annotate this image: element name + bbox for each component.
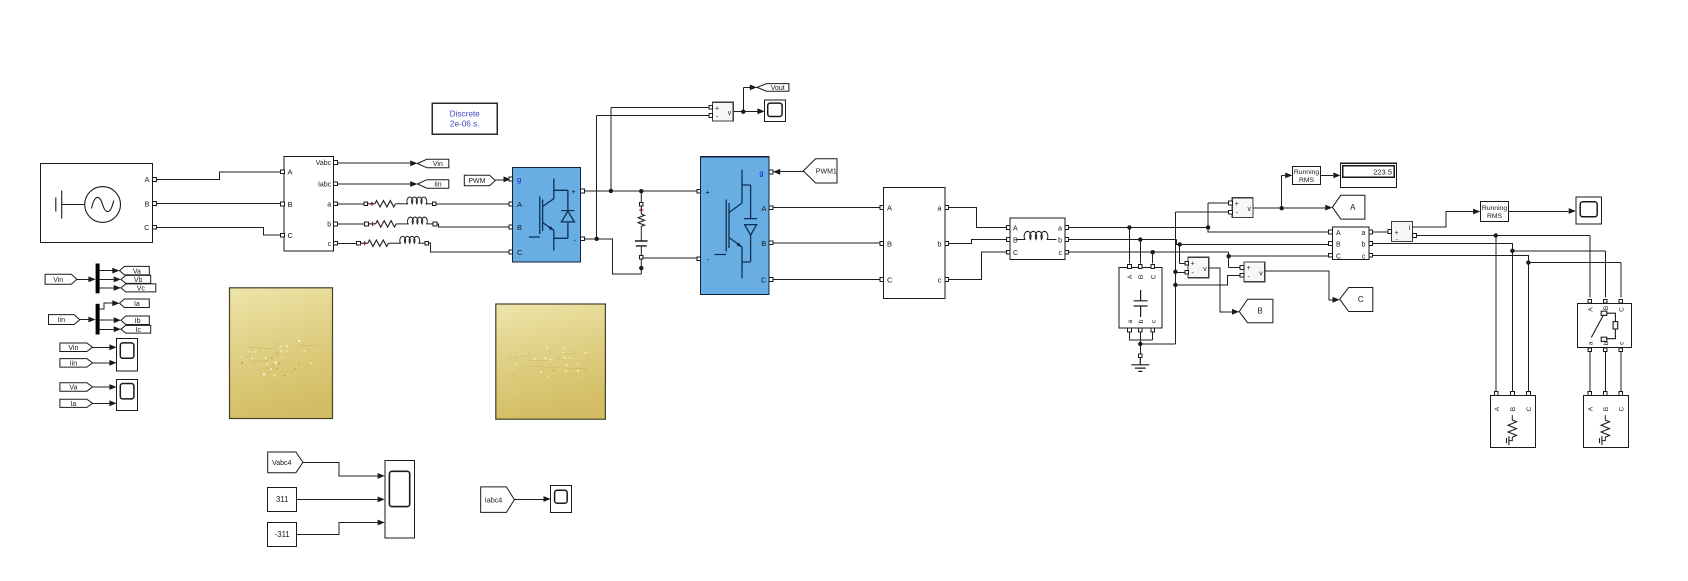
wire demux to Ic (100, 329, 114, 331)
masked subsystem yellow block 1 (230, 288, 333, 419)
svg-text:B: B (761, 239, 766, 248)
wire demux to Vb (100, 278, 114, 280)
svg-text:A: A (1336, 230, 1341, 237)
svg-text:B: B (1013, 238, 1018, 245)
junction snubber bottom (639, 266, 643, 270)
svg-text:b: b (327, 222, 331, 229)
wire phase a bus (1069, 227, 1329, 232)
svg-text:c: c (938, 276, 942, 285)
svg-text:311: 311 (276, 495, 288, 504)
load 1 port C (1527, 392, 1531, 396)
three-phase V-I measurement block 1 (284, 157, 334, 252)
rectifier port - (581, 237, 585, 241)
svg-text:b: b (937, 240, 941, 249)
inductor port a (1065, 226, 1069, 230)
inverter port g (769, 170, 773, 174)
wire current i output to Running RMS 2 (1413, 212, 1473, 227)
svg-text:C: C (761, 276, 767, 285)
wire RL b to rectifier B (437, 224, 509, 227)
voltage measurement Vb (1188, 257, 1209, 277)
wire V1 minus to neutral (1175, 271, 1184, 273)
junction phase c to voltage measurement C (1227, 254, 1231, 258)
load 2 port C (1619, 392, 1623, 396)
breaker port b (1603, 348, 1607, 352)
constant 311 (268, 488, 297, 512)
wire Iin to demux 2 (80, 319, 89, 321)
goto tag Vb (121, 275, 151, 283)
rectifier port g (509, 177, 513, 181)
junction Va output (1280, 206, 1284, 210)
junction neutral V1 (1173, 270, 1177, 274)
wire phase c drop to capacitor bank (1152, 252, 1154, 263)
transformer port c (945, 278, 949, 282)
svg-text:223.5: 223.5 (1373, 168, 1392, 177)
breaker port C (1619, 299, 1623, 303)
svg-text:a: a (1058, 225, 1062, 232)
transformer port a (945, 206, 949, 210)
svg-text:v: v (1203, 266, 1207, 273)
wire VI1 c to RL branch c (338, 242, 357, 244)
wire V2 minus to neutral (1175, 275, 1239, 285)
wire phase c to breaker and load (1373, 255, 1621, 297)
Running RMS block 1 (1292, 167, 1320, 185)
VI2 port a (1369, 230, 1373, 234)
svg-text:B: B (1138, 275, 1145, 279)
wire Running RMS 1 to display (1321, 174, 1334, 176)
VI1 port C (281, 233, 285, 237)
goto tag C (1340, 288, 1373, 312)
svg-text:Ic: Ic (135, 327, 141, 334)
from tag Vabc4 (268, 452, 303, 473)
svg-text:+: + (715, 105, 719, 112)
junction phase c load 1 (1526, 260, 1530, 264)
svg-text:B: B (288, 200, 293, 209)
inverter port C (769, 278, 773, 282)
wire source B to measurement B (157, 203, 281, 205)
VI1 port Vabc (334, 161, 338, 165)
Vc port - (1240, 273, 1244, 277)
svg-text:-311: -311 (275, 530, 290, 539)
inductor port c (1065, 250, 1069, 254)
wire VI1 a to RL branch a (338, 203, 364, 205)
source port C (153, 225, 157, 229)
VI1 port a (334, 202, 338, 206)
inductor port b (1065, 238, 1069, 242)
svg-text:Ia: Ia (70, 401, 76, 408)
wire phase b drop to load 1 (1511, 251, 1513, 392)
svg-text:C: C (517, 248, 523, 257)
svg-text:Vin: Vin (68, 345, 78, 352)
wire snubber to inverter minus (643, 257, 696, 260)
wire phase a drop to load 1 (1495, 236, 1497, 392)
wire Vin to demux 1 (77, 278, 89, 280)
svg-text:c: c (1362, 253, 1366, 260)
svg-text:+: + (1235, 201, 1239, 208)
Vdc port - (709, 114, 713, 118)
wire inverter B to transformer B (773, 242, 880, 244)
junction neutral V2 (1173, 283, 1177, 287)
source port A (153, 178, 157, 182)
svg-text:C: C (887, 276, 893, 285)
svg-text:g: g (759, 169, 763, 178)
wire PWM to rectifier g (495, 179, 503, 181)
from tag Ia scope (60, 399, 93, 407)
wire PWM1 to inverter g (780, 171, 803, 173)
svg-text:RMS: RMS (1487, 213, 1503, 220)
VI2 port C (1329, 253, 1333, 257)
svg-text:Iabc: Iabc (318, 182, 332, 189)
wire demux to Ib (100, 319, 114, 321)
universal bridge inverter U2 (701, 157, 770, 295)
svg-text:+: + (1246, 265, 1250, 272)
wire phase c down to V2 plus (1229, 256, 1240, 267)
junction phase a load 1 (1494, 233, 1498, 237)
powergui block Discrete 2e-06 s (432, 103, 497, 134)
svg-text:Vabc4: Vabc4 (272, 460, 291, 467)
VI1 port Iabc (334, 182, 338, 186)
svg-text:B: B (1603, 306, 1610, 310)
wire DC plus up to Vdc measurement (611, 107, 709, 191)
svg-text:B: B (517, 223, 522, 232)
Vb port + (1185, 261, 1189, 265)
series RL branch phase a (364, 197, 436, 207)
current measurement port out (1413, 234, 1417, 238)
three-phase RLC load 1 (1491, 396, 1536, 448)
transformer port C (880, 278, 884, 282)
wire source A to measurement A (157, 172, 281, 180)
wire phase a drop to capacitor bank (1128, 227, 1130, 263)
current measurement port + (1388, 230, 1392, 234)
svg-text:C: C (1013, 250, 1018, 257)
svg-text:C: C (1358, 295, 1364, 304)
scope Iabc4 (551, 486, 572, 513)
svg-text:a: a (1587, 341, 1594, 345)
VI1 port b (334, 222, 338, 226)
wire Running RMS 2 to scope (1509, 211, 1569, 213)
wire Va to scope 2 (93, 386, 110, 388)
series RL branch phase b (365, 217, 437, 227)
voltage measurement Vdc (713, 102, 734, 121)
Vc port + (1240, 266, 1244, 270)
VI2 port c (1369, 253, 1373, 257)
svg-text:Discrete: Discrete (450, 110, 480, 119)
VI1 port A (281, 170, 285, 174)
svg-text:A: A (887, 204, 892, 213)
svg-text:Ib: Ib (135, 318, 141, 325)
junction phase b to capacitor bank (1138, 237, 1142, 241)
from tag Iabc4 (481, 487, 515, 513)
from tag Iin (49, 315, 80, 325)
goto tag Vc (121, 284, 156, 292)
capacitor bank port c (1151, 328, 1155, 332)
three-phase RLC load 2 (1584, 396, 1629, 448)
VI1 port B (281, 202, 285, 206)
wire demux to Va (100, 270, 113, 272)
transformer port B (880, 242, 884, 246)
scope current (1576, 197, 1602, 224)
from tag PWM1 (803, 159, 837, 183)
capacitor bank port b (1138, 328, 1142, 332)
svg-text:PWM1: PWM1 (816, 169, 837, 176)
svg-text:A: A (1587, 406, 1594, 411)
svg-text:B: B (1336, 242, 1341, 249)
svg-text:B: B (1258, 307, 1263, 316)
wire demux to Vc (100, 287, 114, 289)
voltage measurement Vc (1244, 262, 1265, 282)
wire VI1 b to RL branch b (338, 223, 365, 225)
svg-text:c: c (1059, 250, 1063, 257)
from tag Vin (45, 274, 77, 284)
wire Vb output to goto B (1209, 268, 1232, 312)
goto tag Ib (121, 316, 149, 325)
wire Va to goto A (1282, 207, 1326, 209)
svg-text:Vin: Vin (53, 277, 63, 284)
junction phase c to capacitor bank (1151, 250, 1155, 254)
goto tag Vin (417, 159, 448, 168)
wire DC minus up to Vdc measurement (597, 115, 709, 238)
svg-text:Running: Running (1482, 205, 1508, 212)
demux 2 (96, 304, 100, 335)
svg-text:-: - (1396, 236, 1398, 243)
wire phase b down to V1 plus (1180, 244, 1185, 263)
wire transformer a to inductor A (949, 207, 1006, 227)
wire phase a to breaker and load (1417, 236, 1590, 298)
svg-text:C: C (1618, 307, 1625, 312)
svg-text:Vabc: Vabc (316, 160, 332, 167)
Running RMS block 2 (1480, 202, 1508, 222)
current measurement block (1392, 221, 1413, 242)
breaker port c (1619, 348, 1623, 352)
wire Vabc to goto Vin (338, 162, 411, 164)
VI1 port c (334, 241, 338, 245)
svg-text:v: v (1259, 270, 1263, 277)
wire Iabc to goto Iin (338, 183, 411, 185)
wire phase a up to V3 plus (1208, 203, 1228, 227)
breaker port a (1588, 348, 1592, 352)
svg-text:Vc: Vc (137, 286, 146, 293)
junction DC minus (595, 237, 599, 241)
svg-text:Va: Va (133, 268, 141, 275)
inductor port C (1006, 250, 1010, 254)
inverter port - (697, 257, 701, 261)
wire neutral line (1140, 212, 1228, 344)
goto tag Ic (121, 325, 151, 333)
junction Vdc output (741, 110, 745, 114)
from tag Vin scope (60, 343, 93, 352)
scope Vdc (765, 100, 786, 122)
svg-text:C: C (1526, 406, 1533, 411)
svg-text:B: B (144, 199, 149, 208)
svg-text:Iin: Iin (58, 317, 66, 324)
wire DC plus rail (585, 190, 697, 192)
junction neutral (1138, 342, 1142, 346)
wire RL c to rectifier C (429, 243, 509, 252)
svg-text:+: + (571, 187, 576, 196)
load 2 port B (1603, 392, 1607, 396)
wire Vin to scope 1 (93, 346, 110, 348)
wire source C to measurement C (157, 227, 281, 235)
wire breaker a to load 2 (1589, 352, 1591, 392)
svg-text:RMS: RMS (1299, 177, 1315, 184)
constant -311 (268, 523, 297, 547)
three-phase capacitor bank block (1119, 267, 1162, 328)
wire capacitor bank to neutral bus (1129, 332, 1152, 354)
wire phase b drop to capacitor bank (1139, 240, 1141, 264)
wire demux to Ia (100, 303, 113, 309)
svg-text:Vb: Vb (134, 277, 143, 284)
wire DC minus rail (585, 239, 642, 274)
three-phase transformer block (884, 188, 945, 299)
source port B (153, 202, 157, 206)
svg-text:B: B (887, 240, 892, 249)
wire breaker c to load 2 (1620, 352, 1622, 392)
universal bridge rectifier U1 (513, 168, 581, 263)
transformer port b (945, 242, 949, 246)
svg-text:C: C (1150, 274, 1157, 279)
svg-text:2e-06 s.: 2e-06 s. (450, 120, 480, 129)
capacitor bank port A (1128, 265, 1132, 269)
wire -311 to scope 3 (297, 523, 378, 535)
goto tag Iin (417, 180, 448, 189)
wire Iin to scope 1 (93, 362, 110, 364)
junction phase b load 1 (1510, 249, 1514, 253)
rectifier port + (581, 189, 585, 193)
capacitor bank port B (1138, 265, 1142, 269)
svg-text:Va: Va (69, 385, 77, 392)
demux 1 (96, 264, 100, 294)
series RL branch phase c (357, 236, 429, 246)
inverter port + (697, 189, 701, 193)
goto tag Va (120, 266, 150, 275)
wire transformer b to inductor B (949, 240, 1006, 244)
wire breaker b to load 2 (1604, 352, 1606, 392)
snubber RC branch between DC rails (635, 191, 648, 274)
svg-text:A: A (288, 168, 293, 177)
capacitor bank port a (1128, 328, 1132, 332)
rectifier port B (509, 225, 513, 229)
inverter port B (769, 241, 773, 245)
inductor port A (1006, 226, 1010, 230)
load 1 port B (1511, 392, 1515, 396)
capacitor bank port C (1151, 265, 1155, 269)
svg-text:A: A (517, 200, 522, 209)
svg-text:Vout: Vout (771, 85, 785, 92)
svg-text:A: A (1013, 225, 1018, 232)
inductor port B (1006, 238, 1010, 242)
rectifier port A (509, 202, 513, 206)
transformer port A (880, 206, 884, 210)
svg-text:Vin: Vin (433, 161, 443, 168)
goto tag Vout (757, 84, 789, 92)
scope Vin Iin (117, 339, 138, 371)
VI2 port B (1329, 242, 1333, 246)
load 2 port A (1588, 392, 1592, 396)
wire Va to Running RMS 1 (1282, 175, 1286, 208)
svg-text:Iin: Iin (70, 361, 78, 368)
goto tag B (1239, 299, 1273, 323)
wire phase b bus (1069, 240, 1329, 245)
wire 311 to scope 3 (297, 498, 378, 500)
neutral port (1138, 354, 1142, 358)
wire Vc output to goto C (1265, 271, 1333, 300)
voltage measurement Va (1232, 198, 1253, 218)
junction phase a to voltage measurement A (1206, 225, 1210, 229)
svg-text:a: a (327, 202, 331, 209)
wire Va output (1253, 207, 1282, 209)
three-phase programmable voltage source (40, 164, 152, 243)
wire phase c drop to load 1 (1527, 263, 1529, 392)
breaker port A (1588, 299, 1592, 303)
svg-text:C: C (1336, 253, 1341, 260)
wire Vabc4 to scope 3 (303, 462, 378, 476)
svg-text:A: A (1350, 203, 1356, 212)
svg-text:a: a (1361, 230, 1365, 237)
breaker port B (1603, 299, 1607, 303)
Vdc port + (709, 105, 713, 109)
scope Vabc4 (385, 460, 415, 538)
VI2 port b (1369, 242, 1373, 246)
svg-text:A: A (144, 175, 149, 184)
wire RL a to rectifier A (436, 203, 508, 205)
three-phase series RL branch block (1010, 218, 1065, 259)
svg-text:g: g (517, 175, 521, 184)
wire phase c bus (1069, 252, 1329, 256)
three-phase V-I measurement block 2 (1332, 227, 1369, 260)
Vb port - (1185, 270, 1189, 274)
svg-text:c: c (328, 241, 332, 248)
svg-text:A: A (1494, 406, 1501, 411)
junction DC plus at snubber (639, 189, 643, 193)
junction phase b to voltage measurement B (1178, 242, 1182, 246)
wire phase b to breaker and load (1373, 243, 1606, 297)
VI2 port A (1329, 230, 1333, 234)
wire Ia to scope 2 (93, 402, 110, 404)
goto tag Ia (120, 299, 150, 308)
inverter port A (769, 206, 773, 210)
from tag Va scope (60, 383, 93, 392)
svg-text:v: v (728, 110, 732, 117)
svg-text:b: b (1138, 319, 1145, 323)
junction DC plus to voltage measurement (609, 189, 613, 193)
svg-text:b: b (1361, 242, 1365, 249)
svg-text:A: A (1587, 307, 1594, 312)
svg-text:C: C (1618, 406, 1625, 411)
svg-text:Running: Running (1294, 169, 1320, 176)
from tag PWM (464, 175, 495, 186)
Va port - (1229, 210, 1233, 214)
svg-text:Iabc4: Iabc4 (485, 495, 503, 504)
rectifier port C (509, 250, 513, 254)
wire Vdc v output (733, 87, 750, 111)
wire inverter A to transformer A (773, 207, 880, 209)
svg-text:C: C (144, 223, 150, 232)
display block 223.5 (1341, 163, 1397, 187)
wire transformer c to inductor C (949, 252, 1006, 279)
svg-text:A: A (1127, 274, 1134, 279)
svg-text:Ia: Ia (134, 301, 140, 308)
load 1 port A (1494, 392, 1498, 396)
svg-text:A: A (761, 204, 766, 213)
from tag Iin scope (60, 359, 93, 368)
Va port + (1229, 201, 1233, 205)
svg-text:B: B (1603, 407, 1610, 411)
svg-text:b: b (1058, 238, 1062, 245)
three-phase breaker block (1577, 303, 1631, 347)
wire Vdc to scope (743, 111, 757, 113)
wire Iabc4 to scope 4 (514, 499, 543, 501)
svg-text:B: B (1510, 407, 1517, 411)
goto tag A (1332, 195, 1365, 219)
